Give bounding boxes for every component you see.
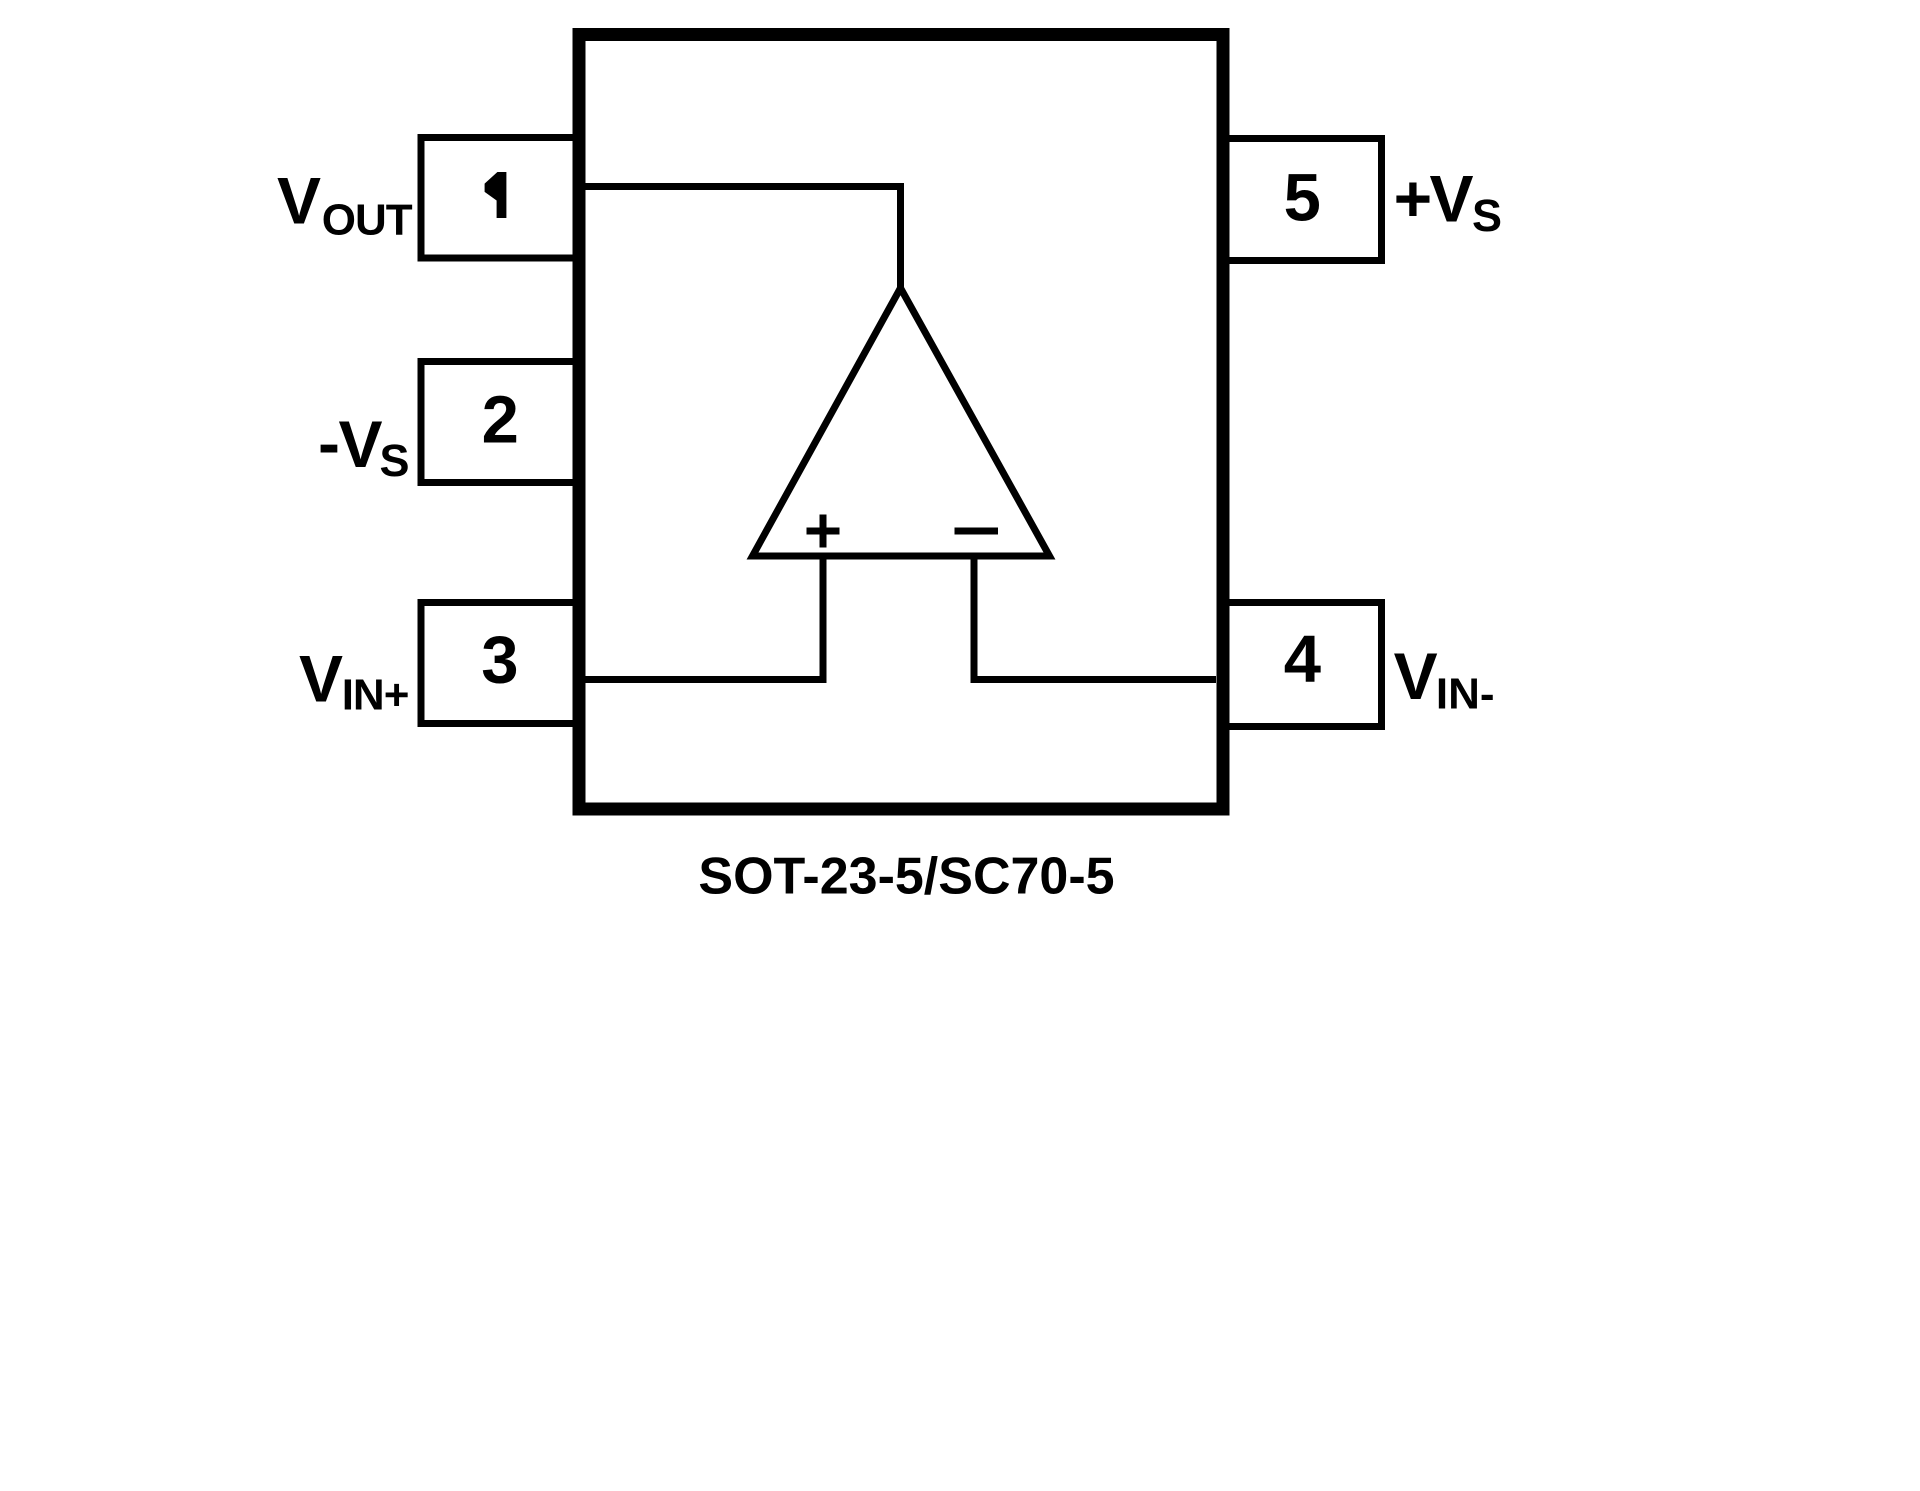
svg-text:-: -	[318, 405, 340, 479]
svg-text:S: S	[380, 435, 410, 486]
svg-text:5: 5	[1284, 160, 1321, 235]
svg-text:IN+: IN+	[342, 671, 409, 720]
svg-text:2: 2	[482, 383, 519, 458]
svg-text:IN-: IN-	[1436, 670, 1495, 719]
svg-text:V: V	[299, 642, 343, 716]
svg-text:V: V	[1394, 639, 1438, 713]
svg-text:+: +	[1394, 161, 1433, 235]
svg-text:V: V	[277, 164, 321, 238]
svg-text:3: 3	[481, 623, 518, 698]
svg-text:S: S	[1472, 190, 1502, 241]
svg-text:4: 4	[1284, 622, 1321, 697]
svg-text:SOT-23-5/SC70-5: SOT-23-5/SC70-5	[698, 847, 1114, 905]
svg-text:OUT: OUT	[322, 196, 413, 245]
svg-text:V: V	[1430, 162, 1474, 236]
svg-text:V: V	[339, 407, 383, 481]
